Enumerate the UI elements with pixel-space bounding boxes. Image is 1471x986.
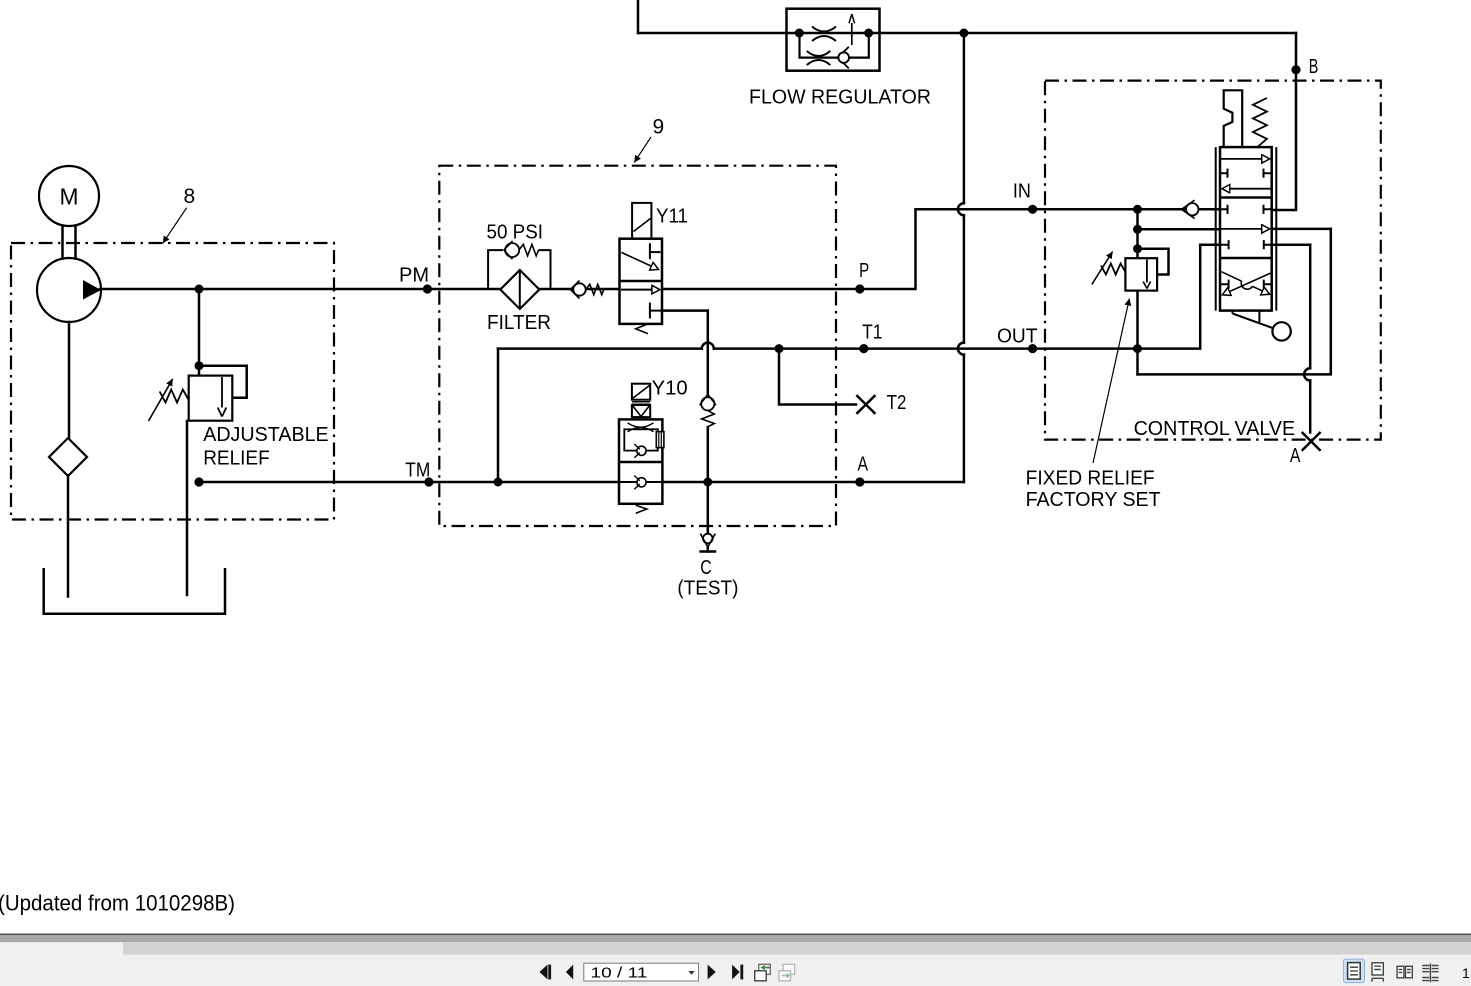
svg-text:1: 1 bbox=[1462, 965, 1470, 981]
svg-text:T2: T2 bbox=[887, 392, 907, 414]
svg-text:OUT: OUT bbox=[997, 326, 1038, 348]
svg-text:M: M bbox=[60, 184, 79, 210]
svg-text:ADJUSTABLE: ADJUSTABLE bbox=[203, 424, 329, 446]
svg-text:8: 8 bbox=[184, 185, 196, 208]
svg-text:(TEST): (TEST) bbox=[677, 578, 738, 600]
svg-text:PM: PM bbox=[399, 265, 429, 287]
svg-text:CONTROL VALVE: CONTROL VALVE bbox=[1134, 418, 1296, 440]
svg-text:IN: IN bbox=[1013, 181, 1031, 203]
svg-text:B: B bbox=[1309, 56, 1319, 78]
svg-text:T1: T1 bbox=[862, 321, 882, 343]
svg-text:(Updated from 1010298B): (Updated from 1010298B) bbox=[0, 891, 235, 916]
svg-text:A: A bbox=[858, 454, 869, 476]
svg-text:P: P bbox=[859, 260, 869, 282]
svg-text:A: A bbox=[1290, 445, 1301, 467]
svg-text:10 / 11: 10 / 11 bbox=[591, 965, 648, 981]
svg-text:9: 9 bbox=[653, 116, 665, 139]
svg-text:Y10: Y10 bbox=[652, 378, 688, 400]
svg-text:Y11: Y11 bbox=[656, 206, 688, 228]
svg-text:FLOW REGULATOR: FLOW REGULATOR bbox=[749, 87, 931, 109]
svg-text:50 PSI: 50 PSI bbox=[487, 222, 544, 244]
svg-text:FACTORY SET: FACTORY SET bbox=[1026, 489, 1161, 511]
svg-text:RELIEF: RELIEF bbox=[203, 448, 270, 470]
svg-text:C: C bbox=[700, 557, 711, 579]
svg-text:FILTER: FILTER bbox=[487, 312, 551, 334]
svg-text:TM: TM bbox=[405, 460, 430, 482]
svg-text:FIXED RELIEF: FIXED RELIEF bbox=[1026, 468, 1155, 490]
